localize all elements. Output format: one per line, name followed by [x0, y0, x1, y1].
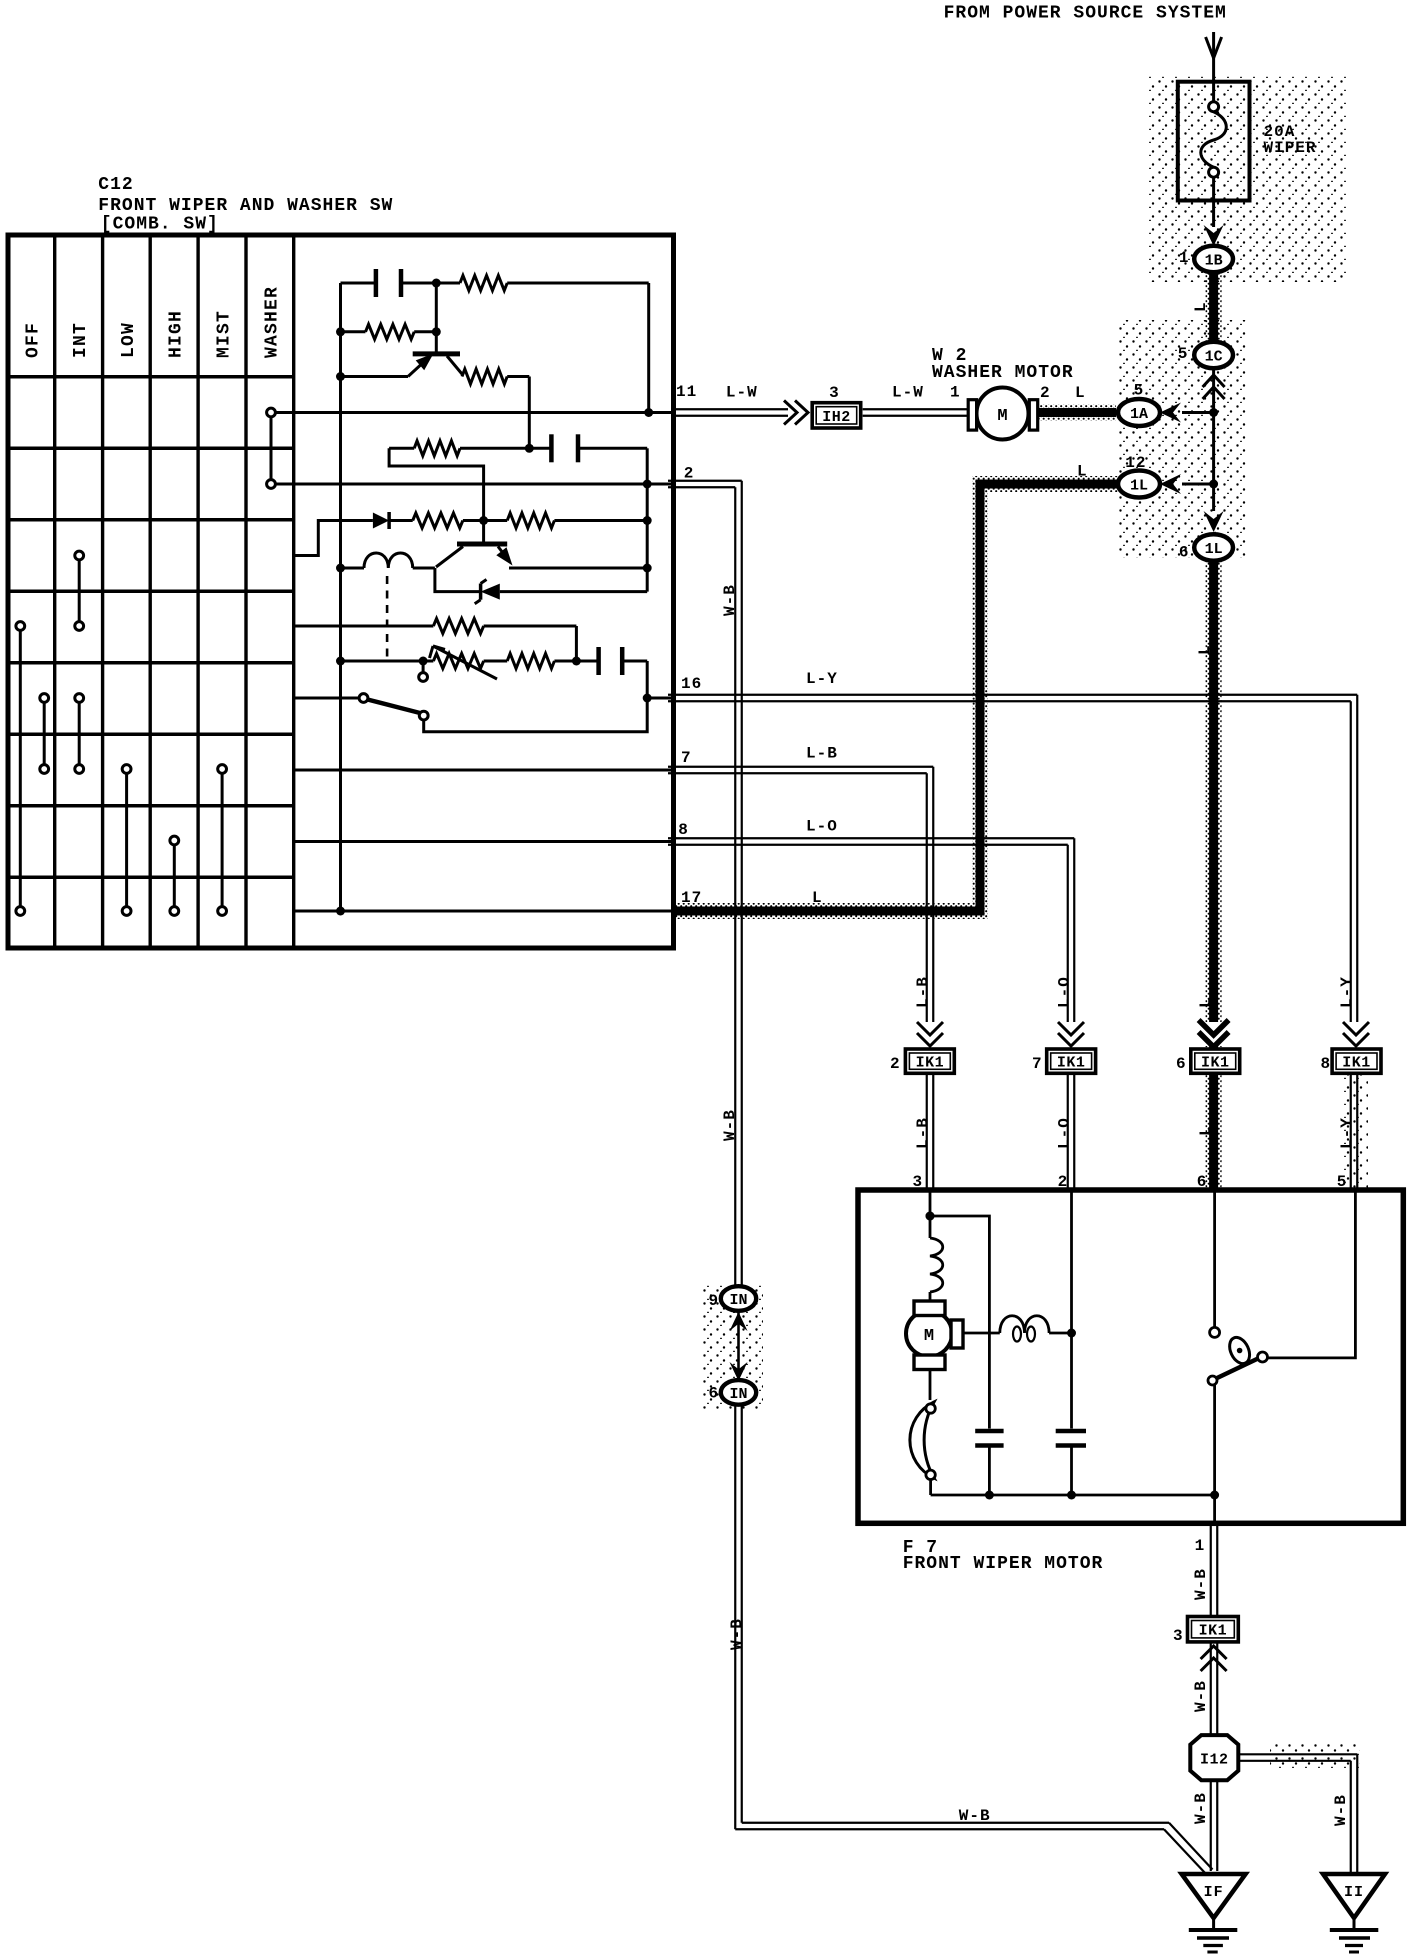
svg-text:7: 7: [1032, 1055, 1043, 1073]
svg-text:IK1: IK1: [1201, 1055, 1230, 1072]
svg-text:IH2: IH2: [822, 409, 851, 426]
svg-text:16: 16: [681, 675, 702, 693]
svg-text:1: 1: [950, 384, 961, 402]
svg-text:IN: IN: [729, 1292, 747, 1309]
svg-text:L-B: L-B: [806, 745, 838, 763]
svg-text:2: 2: [1040, 384, 1051, 402]
svg-text:1L: 1L: [1205, 541, 1223, 558]
svg-text:WIPER: WIPER: [1264, 139, 1317, 157]
svg-text:1A: 1A: [1130, 406, 1148, 423]
svg-text:OFF: OFF: [23, 322, 43, 358]
svg-text:W-B: W-B: [721, 1109, 739, 1141]
svg-text:5: 5: [1178, 345, 1189, 363]
svg-text:LOW: LOW: [119, 322, 139, 358]
svg-text:IK1: IK1: [1342, 1055, 1371, 1072]
svg-text:6: 6: [1176, 1055, 1187, 1073]
svg-text:IF: IF: [1204, 1884, 1224, 1901]
svg-text:8: 8: [678, 821, 689, 839]
svg-text:L-W: L-W: [726, 384, 758, 402]
svg-text:11: 11: [676, 383, 697, 401]
svg-text:L-Y: L-Y: [806, 670, 838, 688]
svg-text:7: 7: [681, 749, 692, 767]
svg-text:W-B: W-B: [1192, 1792, 1210, 1824]
svg-text:5: 5: [1134, 382, 1145, 400]
svg-text:L-W: L-W: [892, 384, 924, 402]
svg-text:W-B: W-B: [1192, 1568, 1210, 1600]
svg-text:L-O: L-O: [1056, 976, 1074, 1008]
svg-text:L-O: L-O: [806, 818, 838, 836]
svg-text:17: 17: [681, 889, 702, 907]
svg-text:MIST: MIST: [215, 310, 235, 358]
svg-text:1B: 1B: [1205, 253, 1223, 270]
svg-text:L-B: L-B: [914, 976, 932, 1008]
svg-text:HIGH: HIGH: [167, 310, 187, 358]
svg-text:9: 9: [709, 1292, 720, 1310]
svg-text:L-O: L-O: [1056, 1117, 1074, 1149]
svg-text:W-B: W-B: [728, 1618, 746, 1650]
svg-text:WASHER: WASHER: [262, 286, 282, 358]
svg-text:1: 1: [1179, 249, 1190, 267]
svg-text:C12: C12: [98, 175, 133, 195]
svg-text:IK1: IK1: [1199, 1623, 1228, 1640]
svg-text:L: L: [1192, 301, 1210, 312]
svg-text:W-B: W-B: [1192, 1680, 1210, 1712]
svg-text:L-B: L-B: [914, 1117, 932, 1149]
svg-text:2: 2: [890, 1055, 901, 1073]
svg-text:L-Y: L-Y: [1338, 976, 1356, 1008]
svg-text:L: L: [1075, 384, 1086, 402]
svg-text:1L: 1L: [1130, 478, 1148, 495]
svg-text:3: 3: [829, 384, 840, 402]
svg-text:INT: INT: [71, 322, 91, 358]
svg-text:L: L: [1197, 1125, 1215, 1136]
svg-text:L: L: [1197, 997, 1215, 1008]
svg-text:M: M: [997, 407, 1007, 426]
svg-text:FRONT WIPER AND WASHER SW: FRONT WIPER AND WASHER SW: [98, 196, 393, 216]
svg-text:FROM POWER SOURCE SYSTEM: FROM POWER SOURCE SYSTEM: [944, 4, 1227, 24]
svg-text:M: M: [924, 1327, 934, 1346]
svg-text:W-B: W-B: [959, 1807, 991, 1825]
svg-text:12: 12: [1125, 454, 1146, 472]
svg-text:WASHER MOTOR: WASHER MOTOR: [932, 363, 1074, 383]
svg-text:3: 3: [1173, 1627, 1184, 1645]
svg-text:IN: IN: [729, 1386, 747, 1403]
svg-text:1: 1: [1195, 1537, 1206, 1555]
svg-text:FRONT WIPER MOTOR: FRONT WIPER MOTOR: [903, 1554, 1104, 1574]
svg-text:6: 6: [709, 1385, 720, 1403]
svg-text:W-B: W-B: [1332, 1794, 1350, 1826]
svg-text:I12: I12: [1200, 1752, 1229, 1769]
svg-text:II: II: [1344, 1884, 1364, 1901]
svg-text:L: L: [1196, 644, 1214, 655]
svg-text:6: 6: [1179, 544, 1190, 562]
svg-text:8: 8: [1321, 1055, 1332, 1073]
svg-text:IK1: IK1: [916, 1055, 945, 1072]
svg-text:W-B: W-B: [721, 584, 739, 616]
svg-text:L: L: [812, 889, 823, 907]
svg-text:IK1: IK1: [1057, 1055, 1086, 1072]
svg-text:L-Y: L-Y: [1338, 1117, 1356, 1149]
svg-text:[COMB. SW]: [COMB. SW]: [101, 215, 219, 235]
svg-text:L: L: [1077, 463, 1088, 481]
svg-text:1C: 1C: [1205, 349, 1223, 366]
